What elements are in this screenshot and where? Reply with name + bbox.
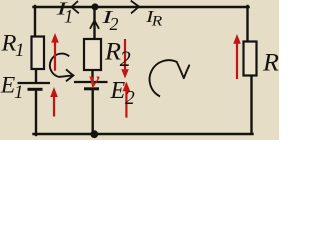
wire right lower	[250, 75, 252, 134]
wire left upper	[34, 6, 36, 37]
svg-text:2: 2	[125, 88, 135, 109]
wire left lower	[35, 90, 37, 135]
wire right upper	[246, 6, 248, 42]
svg-text:1: 1	[64, 7, 73, 27]
wire middle lower	[91, 90, 93, 136]
red current arrow up beside R	[233, 34, 241, 79]
svg-text:2: 2	[110, 14, 119, 34]
arrowhead current I2 (points up on middle wire)	[90, 21, 99, 29]
svg-text:R: R	[262, 49, 279, 76]
red emf arrow up beside E2	[123, 82, 131, 118]
node bottom junction dot	[90, 130, 98, 138]
wire top	[34, 6, 249, 8]
svg-text:E: E	[0, 73, 15, 98]
arrowhead current I1 (points left on top wire)	[72, 1, 79, 13]
svg-text:R: R	[151, 14, 163, 30]
arrowhead current IR (points right on top wire)	[131, 1, 139, 14]
svg-text:1: 1	[15, 40, 25, 61]
wire middle mid	[91, 70, 93, 83]
red current arrow down beside R2	[121, 39, 129, 79]
battery E1 long plate	[18, 82, 51, 84]
loop arrow right (clockwise circle arrow)	[150, 60, 178, 96]
svg-text:2: 2	[120, 46, 131, 71]
svg-text:E: E	[110, 78, 126, 104]
wire middle upper	[93, 7, 95, 40]
node top junction dot	[92, 3, 99, 10]
red emf arrow up beside E1	[50, 87, 58, 117]
red current arrow up beside R1	[51, 33, 59, 71]
battery E1 short plate	[28, 88, 43, 91]
wire left mid	[35, 69, 37, 83]
battery E2 long plate	[74, 81, 108, 83]
wire bottom	[34, 133, 253, 135]
loop arrow left (counterclockwise circle arrow)	[50, 54, 72, 77]
svg-text:1: 1	[14, 82, 24, 103]
resistor R	[244, 42, 257, 76]
svg-text:R: R	[104, 39, 121, 66]
battery E2 short plate	[84, 87, 99, 90]
svg-text:v: v	[89, 67, 100, 92]
resistor R2	[84, 39, 101, 70]
resistor R1	[32, 37, 45, 70]
